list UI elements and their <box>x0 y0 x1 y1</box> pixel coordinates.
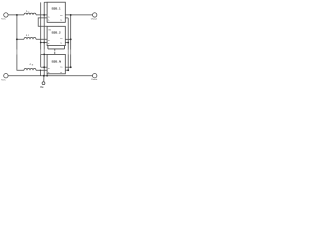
svg-text:w+: w+ <box>60 67 63 69</box>
wire right bus x70.7 upper <box>70 15 72 50</box>
svg-text:N: N <box>32 64 34 66</box>
svg-text:B3B_N: B3B_N <box>52 59 61 63</box>
wire chain box2 lower pin to bus A <box>41 42 47 44</box>
svg-text:Vin: Vin <box>1 80 6 82</box>
terminal T2 left bottom <box>4 74 8 78</box>
svg-text:u-: u- <box>48 43 50 45</box>
svg-text:w+: w+ <box>60 38 63 40</box>
bracket below box2 <box>48 45 65 50</box>
svg-text:u+: u+ <box>48 17 51 19</box>
bracket drop resume into box3 top <box>54 52 56 54</box>
junction dot L2 feed <box>16 38 18 40</box>
junction dot busA box2 lower <box>40 42 42 44</box>
junction dot box2 upper-right <box>70 38 72 40</box>
wire left bus A x40.7 <box>40 2 42 49</box>
junction dot T1 bus <box>16 14 18 16</box>
wire box3 upper-right pin <box>65 66 70 68</box>
wire box2 lower-right pin <box>65 42 68 44</box>
wire box3 upper-left pin <box>41 66 47 68</box>
junction dot busB box3 top <box>43 54 45 56</box>
svg-text:Vout: Vout <box>91 17 98 20</box>
wire T1 to box1 upper-left pin <box>8 14 47 16</box>
junction dot busB box1 upper <box>43 14 45 16</box>
inductor LN <box>24 68 36 70</box>
wire left feed bus x16.9 lower <box>17 54 47 70</box>
wire left bus B x44.2 upper with top hook <box>44 2 47 50</box>
wire right bus x70.7 lower <box>70 54 72 67</box>
ellipsis faded bracket drop <box>54 51 56 52</box>
svg-text:1: 1 <box>28 11 30 13</box>
module box B3B_1 <box>47 2 65 22</box>
ellipsis faded bus x68 <box>67 50 69 54</box>
junction dot box3 upper-right <box>70 66 72 68</box>
svg-text:w-: w- <box>60 43 62 45</box>
inductor L2 <box>24 38 36 40</box>
svg-text:u+: u+ <box>48 68 51 70</box>
svg-text:w+: w+ <box>60 15 63 17</box>
wire left bus B x44.2 lower <box>43 54 45 76</box>
wire right bus x68 lower <box>67 54 69 70</box>
junction dot rail corner stub <box>46 75 48 77</box>
ellipsis faded bus x44.2 <box>43 50 45 54</box>
ellipsis faded bus A x40.7 <box>40 50 42 54</box>
terminal T5 bottom center <box>42 82 45 85</box>
wire box3 corner stub to rail <box>46 74 48 76</box>
module box B3B_N <box>47 54 65 73</box>
junction dot box3 lower drop <box>40 70 41 71</box>
svg-text:u+: u+ <box>48 40 51 42</box>
wire box2 upper-right pin <box>65 38 70 40</box>
junction dot busB box3 upper <box>43 66 45 68</box>
module box B3B_2 <box>47 26 65 45</box>
ellipsis faded bus x70.7 <box>70 50 72 54</box>
wire left feed bus x16.9 upper <box>16 15 18 50</box>
inductor L1 <box>24 13 36 15</box>
wire box3 lower pin drop to rail <box>39 70 41 76</box>
wire bottom rail <box>8 75 92 77</box>
junction dot rail T5 <box>43 75 45 77</box>
junction dot busB box2 lower <box>43 42 45 44</box>
svg-text:u-: u- <box>48 20 50 22</box>
svg-text:Vin: Vin <box>1 19 6 21</box>
svg-text:B2: B2 <box>49 30 51 32</box>
wire right bus x68 upper <box>67 18 69 50</box>
svg-text:B3B_1: B3B_1 <box>52 6 61 10</box>
junction dot T3 wire <box>70 14 72 16</box>
svg-text:VM: VM <box>40 86 44 89</box>
terminal T4 right bottom <box>93 74 97 78</box>
wire bus A resume into box3 <box>41 54 47 67</box>
wire drop to terminal T5 <box>43 76 45 82</box>
wire box1 lower-right pin <box>65 17 68 19</box>
wire box1 upper-right pin to T3 <box>65 14 92 16</box>
terminal T3 right top <box>93 13 97 17</box>
svg-text:B3B_2: B3B_2 <box>52 30 61 34</box>
svg-text:w-: w- <box>60 20 62 22</box>
wire box3 lower-right pin <box>65 69 68 71</box>
wire chain box1 lower pin to box2 top corner <box>38 18 47 26</box>
junction dot box3 lower-right <box>67 69 69 71</box>
svg-text:2: 2 <box>28 35 30 37</box>
svg-text:Vout: Vout <box>91 78 98 81</box>
terminal T1 left top <box>4 13 8 17</box>
ellipsis faded bus x16.9 <box>16 50 18 54</box>
junction dot box2 lower-right <box>67 42 69 44</box>
wire L2 feed box2 upper-left pin <box>17 38 47 40</box>
